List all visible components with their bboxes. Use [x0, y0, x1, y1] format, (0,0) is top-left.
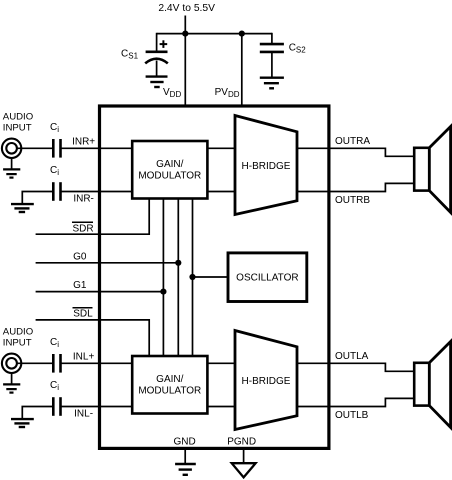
- svg-text:SDL: SDL: [73, 309, 93, 320]
- wire supply rail: [157, 33, 272, 35]
- wire supply drop to VDD: [184, 16, 186, 107]
- svg-text:2.4V to 5.5V: 2.4V to 5.5V: [158, 3, 215, 14]
- block gain/modulator right: [132, 141, 207, 199]
- svg-text:OUTLA: OUTLA: [335, 351, 369, 362]
- svg-text:OUTRB: OUTRB: [335, 195, 370, 206]
- svg-text:SDR: SDR: [72, 224, 93, 235]
- wire SDR: [36, 199, 150, 235]
- wire CS2 top lead: [271, 33, 273, 44]
- node supply-PVDD junction: [239, 30, 245, 36]
- wire SDL: [36, 320, 150, 356]
- wire gain to h-bridge right A: [207, 147, 235, 149]
- wire OUTLB: [297, 398, 414, 406]
- node G1 junction: [160, 289, 166, 295]
- svg-text:PGND: PGND: [227, 437, 256, 448]
- block gain/modulator left: [132, 356, 207, 414]
- capacitor Ci INL-: [53, 397, 60, 416]
- wire Ci to INL+ pin: [61, 362, 133, 364]
- ground under input connector left: [3, 384, 20, 392]
- wire Ci to INL- pin: [61, 406, 133, 408]
- speaker right: [414, 127, 450, 213]
- wire G0: [36, 262, 179, 264]
- svg-text:OUTLB: OUTLB: [335, 410, 369, 421]
- wire GND stub: [184, 448, 186, 464]
- svg-text:G0: G0: [73, 251, 87, 262]
- wire connector ground stub: [11, 158, 13, 169]
- node supply-VDD junction: [182, 30, 188, 36]
- ground under CS1: [146, 77, 168, 87]
- wire oscillator feed: [193, 276, 229, 278]
- svg-text:INL-: INL-: [74, 409, 93, 420]
- ground under CS2: [260, 78, 284, 89]
- svg-text:MODULATOR: MODULATOR: [138, 171, 201, 182]
- wire CS1 bottom lead: [156, 61, 158, 77]
- svg-text:H-BRIDGE: H-BRIDGE: [242, 376, 291, 387]
- wire CS1 top lead: [156, 33, 158, 52]
- svg-text:AUDIO: AUDIO: [3, 112, 33, 123]
- ground GND: [175, 464, 196, 475]
- wire G1: [36, 291, 164, 293]
- svg-text:INPUT: INPUT: [3, 123, 32, 134]
- svg-text:OSCILLATOR: OSCILLATOR: [236, 273, 298, 284]
- wire bus G1 vertical: [162, 199, 164, 356]
- capacitor C_S1 (polarized): [145, 40, 168, 63]
- wire INL- ground branch: [22, 407, 53, 420]
- svg-text:H-BRIDGE: H-BRIDGE: [242, 161, 291, 172]
- ground under input connector right: [3, 169, 20, 177]
- svg-text:OUTRA: OUTRA: [335, 136, 370, 147]
- connector audio input right: [2, 139, 21, 158]
- speaker left: [414, 342, 450, 428]
- capacitor Ci INR-: [53, 182, 60, 201]
- block h-bridge left: [235, 331, 297, 430]
- IC block outline: [100, 106, 329, 448]
- capacitor Ci INR+: [53, 139, 60, 158]
- wire CS2 bottom lead: [271, 52, 273, 78]
- svg-text:INPUT: INPUT: [3, 338, 32, 349]
- chassis ground PGND (open triangle): [232, 463, 256, 477]
- wire connector ground stub left: [11, 373, 13, 384]
- wire gain to h-bridge right B: [207, 191, 235, 193]
- svg-text:AUDIO: AUDIO: [3, 327, 33, 338]
- capacitor C_S2: [260, 44, 284, 52]
- wire bus oscillator vertical: [192, 199, 194, 356]
- wire gain to h-bridge left B: [207, 406, 235, 408]
- wire OUTLA: [297, 363, 414, 371]
- block oscillator: [228, 253, 307, 302]
- svg-text:GAIN/: GAIN/: [156, 159, 183, 170]
- node oscillator junction: [189, 274, 195, 280]
- wire OUTRB: [297, 183, 414, 191]
- svg-text:MODULATOR: MODULATOR: [138, 386, 201, 397]
- capacitor Ci INL+: [53, 354, 60, 373]
- svg-text:GAIN/: GAIN/: [156, 374, 183, 385]
- svg-text:INR+: INR+: [72, 136, 95, 147]
- svg-text:G1: G1: [73, 280, 87, 291]
- svg-text:INR-: INR-: [73, 194, 94, 205]
- wire INR- ground branch: [22, 192, 53, 205]
- wire input right to Ci: [17, 147, 52, 149]
- connector audio input left: [2, 354, 21, 373]
- wire Ci to INR+ pin: [61, 147, 133, 149]
- wire bus G0 vertical: [177, 199, 179, 356]
- wire Ci to INR- pin: [61, 191, 133, 193]
- ground INR- branch: [11, 204, 34, 212]
- wire gain to h-bridge left A: [207, 362, 235, 364]
- wire OUTRA: [297, 148, 414, 156]
- svg-text:GND: GND: [173, 437, 195, 448]
- node G0 junction: [175, 260, 181, 266]
- svg-text:INL+: INL+: [73, 351, 95, 362]
- wire PVDD drop: [241, 34, 243, 106]
- ground INL- branch: [11, 419, 34, 427]
- wire PGND stub: [243, 448, 245, 463]
- block h-bridge right: [235, 116, 297, 215]
- wire input left to Ci: [17, 362, 52, 364]
